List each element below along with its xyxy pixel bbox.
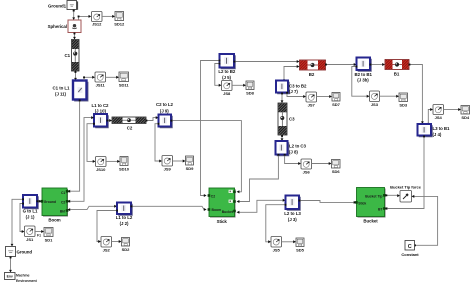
svg-text:SD9: SD9 [186,166,195,171]
wire L1toL2 sensor port to JS2 [97,210,118,243]
wire C3toB2 down to body C3 [281,93,284,104]
joint B2toB1 [354,58,372,83]
svg-text:Bucket: Bucket [222,210,234,214]
svg-text:C1 to L1: C1 to L1 [53,85,71,90]
svg-text:(J 5): (J 5) [222,75,231,80]
svg-text:C1: C1 [61,191,65,195]
wire L2toB2 sensor port to JS8 [215,63,222,87]
svg-text:JS3: JS3 [371,102,379,107]
block Machine Environment [5,273,38,283]
joint L2toL3 [284,196,301,223]
wire B2toB1 to body B1 [370,63,386,66]
wire JS3 to SD3 [380,95,400,98]
scope SD4 [461,106,470,121]
sensor JS9 [162,156,173,172]
wire JS8 to SD8 [232,84,246,87]
svg-text:JS7: JS7 [308,103,316,108]
wire Boom Bkt port to L1toL2 [67,205,117,211]
svg-text:(J 7): (J 7) [289,89,298,94]
scope SD2 [122,238,131,253]
wire Spherical to JS12 [78,15,92,20]
svg-text:L3 to B1: L3 to B1 [433,126,451,131]
svg-text:Stick: Stick [358,201,366,205]
joint C2toL2 [156,102,174,128]
scope SD12 [114,12,125,27]
svg-text:Ground1: Ground1 [48,4,67,9]
wire JS5 to SD5 [282,240,297,243]
svg-text:JS6: JS6 [303,170,311,175]
sensor JS12 [92,12,103,27]
svg-text:SD1: SD1 [45,237,54,242]
wire JS4 to SD4 [444,108,462,111]
scope SD7 [332,93,341,108]
svg-text:L1 to C2: L1 to C2 [92,103,110,108]
wire C1toL1 to Boom port C1 [67,100,80,193]
scope SD9 [186,156,195,171]
body B1 [385,60,409,77]
sensor JS10 [96,157,107,172]
sensor JS3 [370,91,380,107]
wire JS1 to SD1 [35,230,44,238]
wire B2toB1 sensor port to JS3 [352,66,370,98]
svg-text:JS8: JS8 [223,91,231,96]
wire Boom port C2 up to L1toC2 [67,116,94,203]
wire Bucket to Bucket Tip force [385,194,400,197]
svg-text:JS10: JS10 [96,167,106,172]
sensor JS5 [271,237,282,253]
svg-text:(J 2): (J 2) [120,221,129,226]
wire Ground1 to Spherical [72,10,75,21]
scope SD11 [119,72,129,87]
subsystem Boom [41,188,69,223]
joint L2toC3 [276,141,307,156]
svg-text:SD8: SD8 [246,91,255,96]
wire L2toB2 down to Stick port (left) [201,60,221,197]
svg-text:L2 to B2: L2 to B2 [218,69,236,74]
svg-text:Ground: Ground [17,250,33,255]
svg-text:C2: C2 [211,195,215,199]
svg-text:Boom: Boom [212,208,222,212]
svg-text:(J 9): (J 9) [160,109,169,114]
svg-text:SD10: SD10 [119,167,130,172]
joint L3toB1 [418,124,451,137]
wire C3toB2 up to B2 [283,65,299,81]
svg-text:G to L1: G to L1 [23,209,38,214]
svg-text:SD2: SD2 [122,247,131,252]
wire C2toL2 down to Stick port C2 [171,120,242,194]
wire JS11 to SD11 [106,76,120,79]
svg-text:Stick: Stick [217,219,228,224]
body C1 [64,40,79,72]
wire L2toL3 sensor port to JS5 [266,204,287,244]
svg-text:L1 to L2: L1 to L2 [116,215,133,220]
scope SD10 [119,157,130,172]
svg-text:Bucket Tip force: Bucket Tip force [390,184,422,189]
wire L2toC3 sensor port to JS6 [284,154,301,165]
svg-text:JS1: JS1 [26,237,34,242]
svg-text:(J 10): (J 10) [95,108,107,113]
scope SD8 [246,81,255,96]
subsystem Bucket [355,188,386,224]
wire C3 to L2toC3 [281,135,284,141]
svg-text:JS9: JS9 [164,167,172,172]
sensor JS2 [101,237,112,253]
svg-text:(J 8): (J 8) [289,149,298,154]
joint C3toB2 [276,81,307,95]
wire JS9 to SD9 [173,160,186,163]
svg-text:SD4: SD4 [461,115,470,120]
svg-text:JS12: JS12 [92,22,102,27]
sensor JS8 [222,81,233,97]
svg-text:(J 3): (J 3) [288,217,297,222]
subsystem Stick [208,188,236,224]
svg-text:C3 to B2: C3 to B2 [289,84,307,89]
block Ground1 [48,1,78,10]
svg-text:Bucket: Bucket [363,219,378,224]
wire C2 to C2toL2 [146,116,159,121]
wire JS2 to SD2 [112,240,122,243]
wire GtoL1 sensor port to JS1 [20,203,25,233]
svg-text:Ground: Ground [44,200,56,204]
scope SD5 [296,238,305,252]
wire L3toB1 sensor port to JS4 [427,108,433,125]
joint GtoL1 [23,195,39,220]
wire B1 to L3toB1 [409,64,424,124]
svg-text:Env: Env [7,275,13,279]
svg-text:Bkt: Bkt [60,209,66,213]
svg-text:SD12: SD12 [114,21,125,26]
svg-text:Constant: Constant [401,252,419,257]
wire L1toL2 to Stick port Boom [131,205,207,211]
svg-text:Environment: Environment [16,279,38,283]
svg-text:SD11: SD11 [119,82,129,87]
block Ground [6,247,33,257]
svg-text:(J 4): (J 4) [433,132,442,137]
wire C1 to C1toL1 [74,71,77,81]
svg-text:SD6: SD6 [332,169,341,174]
svg-text:C: C [408,244,412,250]
wire Spherical to C1 [73,33,76,40]
sensor JS1 [25,226,36,242]
svg-text:C2: C2 [127,126,133,131]
svg-text:C2: C2 [61,201,65,205]
svg-text:(J 11): (J 11) [55,91,67,96]
svg-text:(J 1): (J 1) [26,215,35,220]
wire Stick Bucket port to L2toL3 [237,199,286,214]
wire L1toC2 sensor port to JS10 [87,123,96,163]
svg-text:(J 3b): (J 3b) [357,78,369,83]
svg-text:SD5: SD5 [296,247,305,252]
svg-text:SD3: SD3 [399,103,408,108]
wire JS12 to SD12 [102,15,115,18]
svg-text:JS11: JS11 [96,82,106,87]
wire C1toL1 to JS11 [83,76,95,81]
svg-text:L2 to L3: L2 to L3 [284,211,301,216]
joint Spherical [48,20,81,33]
wire B2 to B2toB1 [325,63,357,66]
wire Constant to Bucket Tip force [412,195,438,246]
source Constant [401,241,419,258]
svg-text:F1: F1 [37,234,41,238]
svg-text:JS2: JS2 [103,248,111,253]
wire Ground to Machine Environment [9,257,12,273]
actuator Bucket Tip force [390,184,422,202]
svg-text:L2 to C3: L2 to C3 [289,144,307,149]
wire JS7 to SD7 [317,95,333,98]
svg-text:B1: B1 [394,72,400,77]
sensor JS6 [301,159,312,175]
svg-text:C1: C1 [64,53,70,58]
svg-text:B2 to B1: B2 to B1 [354,72,372,77]
wire JS10 to SD10 [106,160,120,163]
joint C1toL1 [53,81,88,101]
wire L1toC2 to body C2 [107,119,113,122]
wire L2toC3 down to Stick port C3 [237,154,280,203]
body C2 [112,117,146,131]
scope SD6 [332,160,341,175]
svg-text:JS5: JS5 [273,248,281,253]
scope SD3 [399,93,408,108]
body C3 [278,103,295,135]
svg-text:B2: B2 [309,72,315,77]
wire L2toL3 to Bucket [299,200,357,204]
sensor JS7 [306,92,317,108]
svg-text:Machine: Machine [16,274,30,278]
sensor JS11 [95,72,106,87]
sensor JS4 [433,105,444,121]
wire GtoL1 to Ground [11,198,24,246]
wire C3toB2 sensor port to JS7 [286,92,306,98]
svg-text:C2 to L2: C2 to L2 [156,102,174,107]
svg-text:JS4: JS4 [435,115,443,120]
svg-text:Bucket Tip: Bucket Tip [365,194,382,198]
joint L1toC2 [92,103,110,128]
svg-text:Spherical: Spherical [48,24,67,29]
joint L2toB2 [218,54,236,80]
body B2 [300,60,326,77]
wire C2toL2 sensor port to JS9 [155,123,162,163]
scope SD1 [44,228,53,243]
wire L2toB2 to body B2 [234,60,300,63]
wire JS6 to SD6 [312,162,332,165]
wire L3toB1 down to Bucket port [385,136,426,211]
svg-text:Boom: Boom [48,218,60,223]
joint L1toL2 [116,203,133,227]
svg-text:SD7: SD7 [332,102,341,107]
svg-text:C3: C3 [289,117,295,122]
wire GtoL1 to Boom [37,200,42,203]
